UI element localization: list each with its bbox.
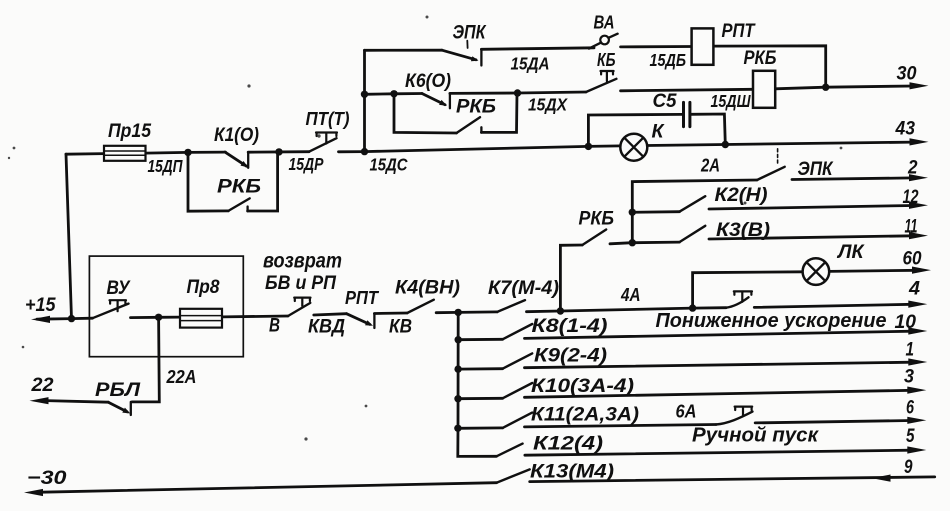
svg-text:2А: 2А bbox=[700, 156, 720, 176]
svg-text:КВД: КВД bbox=[308, 317, 345, 338]
svg-text:К11(2А,3А): К11(2А,3А) bbox=[531, 405, 639, 426]
svg-text:2: 2 bbox=[907, 157, 917, 179]
svg-text:22А: 22А bbox=[166, 367, 197, 387]
svg-text:9: 9 bbox=[904, 456, 913, 478]
svg-text:−30: −30 bbox=[27, 467, 67, 489]
svg-text:15ДП: 15ДП bbox=[148, 156, 183, 176]
svg-text:5: 5 bbox=[906, 425, 915, 447]
svg-text:ВУ: ВУ bbox=[107, 278, 132, 299]
svg-text:30: 30 bbox=[897, 63, 917, 85]
svg-text:БВ и РП: БВ и РП bbox=[265, 273, 336, 294]
svg-text:К6(О): К6(О) bbox=[405, 71, 451, 92]
svg-text:ЭПК: ЭПК bbox=[453, 23, 487, 44]
svg-text:К13(М4): К13(М4) bbox=[530, 462, 614, 483]
svg-text:РБЛ: РБЛ bbox=[95, 380, 141, 401]
svg-text:43: 43 bbox=[895, 118, 916, 140]
svg-text:РКБ: РКБ bbox=[744, 48, 777, 69]
svg-text:6: 6 bbox=[906, 397, 914, 419]
svg-text:К: К bbox=[652, 122, 665, 143]
svg-text:60: 60 bbox=[903, 248, 922, 270]
svg-text:ЭПК: ЭПК bbox=[798, 159, 834, 180]
svg-text:РКБ: РКБ bbox=[456, 97, 496, 118]
svg-text:РПТ: РПТ bbox=[722, 21, 756, 42]
svg-text:15ДА: 15ДА bbox=[511, 54, 550, 74]
svg-text:Ручной пуск: Ручной пуск bbox=[692, 425, 819, 447]
svg-text:+15: +15 bbox=[25, 295, 56, 316]
svg-text:К10(3А-4): К10(3А-4) bbox=[531, 376, 634, 397]
svg-text:Пр8: Пр8 bbox=[187, 277, 220, 298]
svg-text:22: 22 bbox=[30, 375, 53, 396]
svg-text:6А: 6А bbox=[676, 402, 697, 422]
svg-text:К2(Н): К2(Н) bbox=[715, 185, 768, 206]
svg-text:ПТ(Т): ПТ(Т) bbox=[306, 109, 350, 129]
svg-text:10: 10 bbox=[895, 311, 917, 333]
svg-text:В: В bbox=[269, 316, 280, 337]
svg-text:возврат: возврат bbox=[263, 250, 342, 273]
svg-text:Пониженное ускорение: Пониженное ускорение bbox=[656, 310, 887, 332]
svg-text:РПТ: РПТ bbox=[345, 287, 380, 308]
svg-text:К9(2-4): К9(2-4) bbox=[534, 346, 607, 367]
svg-text:15ДБ: 15ДБ bbox=[650, 50, 687, 70]
svg-text:15ДС: 15ДС bbox=[370, 155, 408, 175]
svg-text:Пр15: Пр15 bbox=[108, 121, 151, 142]
svg-text:РКБ: РКБ bbox=[217, 177, 261, 198]
svg-text:11: 11 bbox=[905, 216, 918, 238]
svg-text:3: 3 bbox=[904, 366, 914, 388]
svg-text:ВА: ВА bbox=[594, 13, 615, 33]
svg-text:4: 4 bbox=[908, 278, 920, 300]
svg-text:К4(ВН): К4(ВН) bbox=[395, 278, 460, 299]
svg-text:К8(1-4): К8(1-4) bbox=[532, 316, 608, 337]
svg-text:К12(4): К12(4) bbox=[533, 434, 603, 455]
svg-text:КБ: КБ bbox=[597, 50, 616, 70]
svg-text:КВ: КВ bbox=[389, 317, 412, 338]
svg-text:С5: С5 bbox=[653, 91, 677, 112]
svg-text:ЛК: ЛК bbox=[836, 242, 865, 263]
svg-text:К7(М-4): К7(М-4) bbox=[488, 278, 559, 299]
svg-text:К3(В): К3(В) bbox=[716, 220, 770, 241]
svg-text:12: 12 bbox=[903, 186, 919, 208]
svg-text:4А: 4А bbox=[620, 285, 640, 305]
svg-text:15ДШ: 15ДШ bbox=[711, 91, 752, 111]
svg-text:15ДР: 15ДР bbox=[289, 154, 324, 174]
svg-text:15ДХ: 15ДХ bbox=[528, 95, 568, 115]
svg-text:К1(О): К1(О) bbox=[214, 125, 259, 146]
svg-text:1: 1 bbox=[906, 339, 915, 361]
svg-text:РКБ: РКБ bbox=[579, 209, 615, 230]
